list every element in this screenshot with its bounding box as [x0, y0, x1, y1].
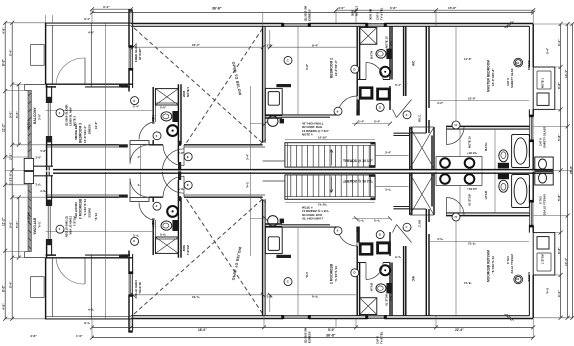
svg-text:2'-0": 2'-0"	[36, 156, 43, 160]
door: A/C bifold (diagonal leaf)	[393, 100, 412, 118]
label: note pair above wall	[351, 5, 359, 16]
label: NOTE 10 at bath(mid)	[385, 36, 393, 48]
svg-text:4'-8": 4'-8"	[1, 27, 5, 34]
svg-text:A/C: A/C	[412, 60, 416, 66]
svg-text:5'-4": 5'-4"	[395, 83, 402, 87]
dimension line: left third	[15, 82, 21, 259]
right extension lines	[533, 24, 572, 318]
door: hall door at bath SE (tag 8)	[163, 145, 184, 166]
svg-text:BEDROOM 2: BEDROOM 2	[330, 58, 334, 78]
svg-text:4'-0": 4'-0"	[88, 30, 95, 34]
stairs: treads label	[343, 159, 374, 163]
svg-text:EGRESS: EGRESS	[308, 9, 312, 21]
svg-text:10: 10	[516, 61, 520, 65]
svg-text:36'-8": 36'-8"	[212, 6, 222, 10]
label: BATH (left)	[151, 115, 155, 124]
svg-text:5'-4": 5'-4"	[546, 47, 550, 54]
tag circles with leaders	[56, 56, 523, 160]
label: slider door note	[65, 105, 77, 126]
svg-text:5'-8": 5'-8"	[557, 194, 561, 201]
door: bath(mid) door	[366, 63, 383, 80]
dimension line: right third overall	[569, 22, 574, 320]
svg-text:36"X120": 36"X120"	[138, 47, 142, 60]
svg-text:16'-4": 16'-4"	[192, 43, 200, 47]
dim: 18'-4" void	[192, 43, 200, 47]
svg-text:18'-0": 18'-0"	[198, 328, 207, 332]
dim: 5'-4" right inner	[546, 47, 550, 54]
party wall between units	[53, 170, 553, 174]
svg-text:3'-4": 3'-4"	[84, 17, 91, 21]
tub: master bath	[512, 135, 530, 168]
window: master bath safety glass window	[529, 115, 534, 143]
svg-text:14'-10": 14'-10"	[318, 136, 328, 140]
dimension line: top second row right	[334, 6, 535, 12]
wall: bath(mid) west wall	[357, 26, 359, 115]
label: safety glass note (master)	[506, 68, 514, 88]
dimension line: left outer	[1, 21, 12, 321]
svg-text:MASTER BEDROOM: MASTER BEDROOM	[487, 60, 491, 92]
wall: bedroom2 south wall	[265, 116, 282, 119]
svg-text:4'-8": 4'-8"	[30, 334, 37, 338]
svg-text:2'-8": 2'-8"	[178, 151, 185, 155]
svg-text:13'-0"X15'-8": 13'-0"X15'-8"	[491, 68, 495, 86]
interior thin extension lines	[46, 24, 529, 171]
svg-text:DRESS: DRESS	[88, 124, 92, 134]
svg-text:BATH: BATH	[484, 142, 488, 151]
svg-text:8'-8": 8'-8"	[557, 82, 561, 89]
window label: 3050 SH at bath	[369, 9, 373, 20]
wall: right exterior wall	[529, 24, 533, 170]
label: master BATH + NOTE	[467, 136, 488, 155]
svg-text:4'-8": 4'-8"	[1, 303, 5, 310]
svg-text:36'-8": 36'-8"	[326, 334, 336, 338]
label: BEDROOM 2	[330, 58, 338, 78]
window: bath window 3050SH	[365, 23, 387, 27]
svg-text:3'-8": 3'-8"	[305, 63, 309, 70]
svg-text:15'-8": 15'-8"	[448, 6, 457, 10]
svg-text:6'-4": 6'-4"	[557, 39, 561, 46]
svg-text:14'-4": 14'-4"	[564, 69, 568, 78]
door: balcony slider door (2)2868	[48, 103, 50, 136]
dim: stairs 14'-10"	[318, 136, 328, 140]
svg-text:2'-4": 2'-4"	[358, 120, 365, 124]
sink: bath(left) bold basin	[167, 125, 178, 136]
svg-text:BALCONY: BALCONY	[33, 106, 37, 124]
bumpout: right side niche	[533, 67, 555, 109]
wall: master bedroom south wall	[410, 126, 530, 133]
svg-text:BEDROOM 3: BEDROOM 3	[79, 123, 83, 143]
dim: shower 5'-0"	[160, 106, 167, 110]
label: NOTE 1 in right niche	[541, 77, 545, 88]
wall: hall north wall above stairs	[282, 115, 338, 117]
svg-text:TV & TEL: TV & TEL	[380, 331, 384, 344]
toilet: bath(mid)	[376, 49, 391, 59]
chase closet with X (by stairs)	[410, 127, 434, 170]
svg-text:3'-0": 3'-0"	[389, 39, 393, 46]
laundry chute cabinet	[265, 84, 291, 115]
svg-text:5'-0": 5'-0"	[328, 328, 335, 332]
stairs: rail notes block	[285, 122, 375, 140]
wall: hall segment west of chase	[393, 133, 409, 135]
washer dryer squares	[359, 86, 391, 100]
svg-text:5'-0": 5'-0"	[8, 111, 12, 118]
sink: bath(mid)	[380, 67, 390, 77]
chase block at party wall right	[535, 157, 553, 170]
svg-text:6'-4": 6'-4"	[557, 290, 561, 297]
balcony divider cross (upper half)	[24, 149, 53, 171]
wall: main top exterior wall	[131, 24, 533, 27]
balcony north edge	[25, 85, 46, 91]
dim: bedroom3 11'-6"	[94, 121, 98, 129]
shower: bath(mid) with X	[360, 28, 377, 45]
svg-text:3'-0": 3'-0"	[38, 113, 42, 120]
svg-text:1'-8": 1'-8"	[8, 172, 12, 179]
stairs: upper flight	[285, 143, 375, 167]
svg-text:14'-4": 14'-4"	[564, 257, 568, 266]
svg-text:5'-4": 5'-4"	[8, 49, 12, 56]
wall: bath(mid) south wall	[357, 79, 390, 81]
label: DRESS at right wall	[527, 60, 531, 70]
label: MASTER BEDROOM	[487, 60, 496, 92]
svg-text:TV & TEL: TV & TEL	[380, 7, 384, 20]
svg-text:NOTE 2: NOTE 2	[355, 5, 359, 16]
landing edge line left of stairs	[263, 160, 285, 162]
bottom extension lines	[92, 316, 533, 338]
door: bedroom3 door header and swing	[130, 141, 149, 170]
svg-text:NOTE 1: NOTE 1	[541, 77, 545, 88]
svg-text:11'-6": 11'-6"	[94, 121, 98, 129]
stairs: end post black caps	[369, 142, 375, 168]
svg-text:5'-0": 5'-0"	[15, 111, 19, 118]
svg-text:22'-4": 22'-4"	[455, 328, 464, 332]
svg-text:3'-4": 3'-4"	[103, 5, 110, 9]
dimension line: left second	[8, 21, 14, 321]
dimension line: bottom row1	[90, 325, 535, 331]
window: fixed glass 36x120 in stub wall	[129, 45, 134, 70]
svg-text:15'-0": 15'-0"	[468, 97, 476, 101]
dim: master 11'-6"	[437, 57, 476, 105]
svg-text:5'-4": 5'-4"	[8, 281, 12, 288]
dimension line: top overall 36'-8"	[90, 6, 535, 14]
dimension line: right second	[564, 22, 570, 320]
wall: closet divider in dress strip	[90, 24, 92, 88]
wall: bedroom3 north wall (horizontal, y84)	[46, 84, 133, 87]
wall: A/C closet east wall	[404, 26, 406, 96]
svg-text:8'-0": 8'-0"	[1, 285, 5, 292]
svg-text:BATH: BATH	[370, 51, 374, 59]
wall: bedroom3 north stub wall	[129, 9, 133, 91]
label: OPEN TO BELOW (rotated along diagonal)	[231, 61, 242, 96]
label: BALCONY	[26, 106, 41, 130]
svg-text:2'-2": 2'-2"	[8, 178, 12, 185]
hall dims middle	[178, 83, 402, 160]
wall: bath/bedroom3 south wall	[46, 144, 266, 147]
corner break tick top-right	[505, 22, 514, 29]
wall: left exterior wall upper	[46, 23, 53, 85]
svg-text:SMOKE DET.: SMOKE DET.	[74, 123, 78, 140]
window label: (2)3050 SH EGRESS	[304, 6, 312, 21]
toilet: bath(left)	[161, 111, 178, 122]
svg-text:11'-6": 11'-6"	[464, 57, 472, 61]
open-to-below dashed X	[134, 28, 263, 144]
svg-text:3'-4": 3'-4"	[246, 153, 250, 160]
svg-text:EGRESS: EGRESS	[308, 331, 312, 343]
break tick at void wall end	[259, 140, 267, 146]
svg-text:13'-6"X11'-2": 13'-6"X11'-2"	[83, 125, 87, 143]
svg-text:SAFETY GLASS: SAFETY GLASS	[543, 126, 547, 148]
door: dress closet door leaf and swing	[56, 58, 85, 84]
dim ticks interior	[131, 45, 392, 125]
door: bath(left) door	[139, 122, 153, 140]
toilet: master bath	[498, 150, 509, 169]
svg-text:5'-0": 5'-0"	[160, 106, 167, 110]
master bath vanity and twin sinks	[436, 156, 482, 170]
bottom left small texts	[30, 334, 83, 338]
wall: bath(left) east wall	[178, 84, 181, 170]
svg-text:5'-0": 5'-0"	[15, 221, 19, 228]
wall: left unit wall along balcony	[46, 84, 52, 170]
label: FIXED GLASS	[134, 43, 142, 62]
svg-text:TREADS @ 10 1/2": TREADS @ 10 1/2"	[343, 159, 374, 163]
svg-text:H: H	[455, 123, 457, 127]
svg-text:F: F	[406, 113, 408, 117]
dimension line: top second row left	[90, 5, 133, 11]
svg-text:2'-2": 2'-2"	[8, 153, 12, 160]
svg-text:NOTE 5: NOTE 5	[186, 86, 190, 97]
label: BATH (mid)	[370, 51, 374, 59]
label: BEDROOM 3	[74, 123, 92, 143]
svg-text:4'-2": 4'-2"	[437, 101, 444, 105]
svg-text:6'-8": 6'-8"	[390, 6, 397, 10]
svg-text:3'-4": 3'-4"	[385, 151, 392, 155]
label: W.I.C.	[418, 114, 422, 122]
wall: master bedroom west wall	[426, 26, 429, 133]
bottom window labels (mirror)	[304, 328, 384, 344]
svg-text:DRESS: DRESS	[527, 60, 531, 70]
dim: bedroom2 9'-4" / 2'-8" / 3'-8"	[267, 43, 319, 70]
svg-text:2'-4": 2'-4"	[133, 104, 140, 108]
door: master bedroom door	[446, 126, 464, 144]
svg-text:5'-8": 5'-8"	[41, 149, 48, 153]
svg-text:5'-4": 5'-4"	[374, 120, 381, 124]
jamb: bedroom2 door black jamb	[356, 100, 359, 116]
svg-text:11'-2": 11'-2"	[1, 123, 5, 132]
left extension lines	[5, 23, 45, 319]
svg-text:3050 SH: 3050 SH	[369, 9, 373, 20]
label: safety glass window right	[539, 126, 547, 148]
svg-text:11'-2": 11'-2"	[1, 217, 5, 226]
svg-text:NOTE 10: NOTE 10	[468, 136, 472, 148]
svg-text:W.I.C.: W.I.C.	[418, 114, 422, 122]
svg-text:NOTE 4: NOTE 4	[302, 133, 313, 137]
dimension line: bottom row2	[90, 334, 535, 340]
wall: open-to-below / bedroom2 divider (east wall of void)	[263, 26, 266, 143]
dim: 2'-4" near tag 6	[133, 104, 140, 108]
sink: round utility sink with counter block	[268, 116, 284, 126]
svg-text:28'-8": 28'-8"	[569, 165, 573, 174]
label: notes right of shower	[182, 86, 190, 97]
svg-text:NOTE 1: NOTE 1	[26, 119, 30, 130]
svg-text:9'-4": 9'-4"	[312, 43, 319, 47]
dimension line: right outer	[557, 22, 563, 320]
svg-text:5'-0": 5'-0"	[8, 221, 12, 228]
svg-text:BATH: BATH	[151, 115, 155, 124]
dim: hall by stairs 3'-4"	[375, 151, 408, 156]
door: bedroom2 door (arc)	[338, 96, 358, 116]
window: bedroom2 egress window (2)3050SH	[281, 23, 311, 27]
svg-text:SAFETY GLAS: SAFETY GLAS	[510, 68, 514, 88]
label: A/C	[412, 60, 416, 66]
wall: A/C closet west wall	[390, 26, 392, 110]
wall: top wall of dress/closet strip (left wing)	[45, 23, 131, 25]
svg-text:1'-0": 1'-0"	[76, 334, 83, 338]
svg-text:11'-0"X9'-4": 11'-0"X9'-4"	[334, 60, 338, 76]
balcony railing (hatched)	[28, 90, 31, 158]
dim: 2'-2" vertical by void wall	[268, 30, 272, 49]
closet: small box outside left wall	[31, 45, 44, 66]
svg-text:+18 13+: +18 13+	[467, 151, 478, 155]
svg-text:2'-8": 2'-8"	[267, 43, 274, 47]
svg-text:8'-0": 8'-0"	[1, 59, 5, 66]
dim: closet 4'-0"	[84, 17, 95, 35]
dimension extension lines: top	[46, 9, 534, 26]
svg-text:8'-8": 8'-8"	[557, 247, 561, 254]
svg-text:5'-8": 5'-8"	[557, 134, 561, 141]
party wall doors (hall)	[163, 149, 185, 171]
label: CAT-5 TV TEL	[376, 7, 384, 20]
shower: bath(left) with X	[155, 89, 178, 105]
svg-text:4'-0": 4'-0"	[338, 6, 345, 10]
wall: bath(left) west wall	[153, 87, 155, 145]
